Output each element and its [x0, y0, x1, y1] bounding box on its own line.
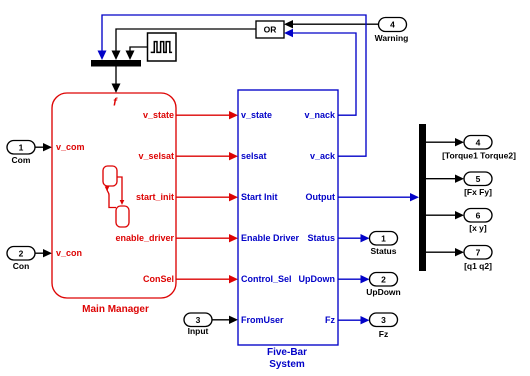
- svg-text:[q1 q2]: [q1 q2]: [464, 261, 492, 271]
- svg-text:enable_driver: enable_driver: [115, 233, 174, 243]
- svg-text:Control_Sel: Control_Sel: [241, 274, 292, 284]
- wire Con to Main Manager: [35, 249, 52, 257]
- svg-text:Status: Status: [307, 233, 335, 243]
- blue wire Fz: [338, 316, 370, 324]
- svg-text:OR: OR: [264, 25, 277, 35]
- svg-text:UpDown: UpDown: [299, 274, 336, 284]
- red wire ConSel: [176, 275, 238, 283]
- svg-text:[Fx Fy]: [Fx Fy]: [464, 187, 492, 197]
- svg-text:6: 6: [476, 211, 481, 221]
- outport 2 UpDown: [366, 273, 400, 298]
- svg-text:5: 5: [476, 174, 481, 184]
- svg-text:Input: Input: [188, 326, 209, 336]
- svg-text:Status: Status: [371, 246, 397, 256]
- outport 5 FxFy: [464, 172, 492, 197]
- inport 4 Warning: [375, 18, 409, 44]
- wire Input to FromUser: [212, 316, 238, 324]
- outport 7 q1q2: [464, 246, 492, 272]
- svg-text:f: f: [113, 97, 118, 109]
- svg-text:v_com: v_com: [56, 142, 85, 152]
- svg-text:v_state: v_state: [241, 110, 272, 120]
- svg-text:3: 3: [196, 315, 201, 325]
- blue wire UpDown: [338, 275, 370, 283]
- svg-text:4: 4: [390, 20, 395, 30]
- wire Warning to OR: [284, 20, 379, 28]
- svg-text:Main Manager: Main Manager: [82, 304, 149, 315]
- svg-text:Warning: Warning: [375, 33, 409, 43]
- red wire selsat: [176, 152, 238, 160]
- outport 1 Status: [370, 232, 398, 257]
- wire OR to mux: [112, 29, 257, 60]
- svg-text:3: 3: [381, 315, 386, 325]
- svg-text:2: 2: [19, 249, 24, 259]
- svg-text:Enable Driver: Enable Driver: [241, 233, 300, 243]
- svg-text:v_state: v_state: [143, 110, 174, 120]
- svg-text:[Torque1 Torque2]: [Torque1 Torque2]: [442, 151, 516, 161]
- red wire enable_driver: [176, 234, 238, 242]
- Main Manager port labels: [56, 110, 174, 284]
- wire demux to outport 7: [426, 248, 464, 256]
- red wire start_init: [176, 193, 238, 201]
- inport 2 Con: [7, 247, 35, 272]
- inport 1 Com: [7, 141, 35, 166]
- pulse generator: [148, 33, 177, 61]
- svg-text:Fz: Fz: [379, 329, 388, 339]
- svg-text:v_con: v_con: [56, 248, 82, 258]
- Five-Bar port labels: [241, 110, 336, 325]
- blue wire v_ack to mux: [98, 15, 367, 156]
- outport 3 Fz: [370, 313, 398, 339]
- red wire v_state: [176, 111, 238, 119]
- wire pulse generator to mux: [126, 47, 148, 60]
- svg-text:[x y]: [x y]: [469, 223, 487, 233]
- svg-text:v_nack: v_nack: [304, 110, 336, 120]
- outport 4 Torque: [442, 136, 516, 161]
- svg-text:selsat: selsat: [241, 151, 267, 161]
- OR block: [256, 21, 284, 38]
- svg-text:Fz: Fz: [325, 315, 335, 325]
- blue wire Output to demux: [338, 193, 419, 201]
- block Five-Bar System: [238, 90, 338, 370]
- mux bar: [91, 60, 141, 67]
- svg-text:7: 7: [476, 248, 481, 258]
- svg-text:Com: Com: [12, 155, 31, 165]
- svg-text:4: 4: [476, 138, 481, 148]
- wire demux to outport 5: [426, 175, 464, 183]
- svg-text:1: 1: [19, 143, 24, 153]
- svg-text:v_ack: v_ack: [310, 151, 336, 161]
- svg-text:2: 2: [381, 275, 386, 285]
- svg-text:Output: Output: [306, 192, 336, 202]
- wire Com to Main Manager: [35, 143, 52, 151]
- svg-text:Five-Bar: Five-Bar: [267, 347, 307, 358]
- svg-text:Con: Con: [13, 261, 30, 271]
- svg-text:v_selsat: v_selsat: [138, 151, 174, 161]
- svg-text:System: System: [269, 359, 305, 370]
- svg-text:UpDown: UpDown: [366, 287, 400, 297]
- demux bar: [419, 124, 426, 271]
- svg-text:ConSel: ConSel: [143, 274, 174, 284]
- svg-text:1: 1: [381, 234, 386, 244]
- blue wire Status: [338, 234, 370, 242]
- outport 6 xy: [464, 209, 492, 234]
- Main Manager chart icon: [103, 166, 129, 227]
- svg-text:Start Init: Start Init: [241, 192, 278, 202]
- inport 3 Input: [184, 313, 212, 336]
- svg-text:start_init: start_init: [136, 192, 174, 202]
- blue wire v_nack to OR: [284, 29, 356, 115]
- wire demux to outport 4: [426, 138, 464, 146]
- wire mux to Main Manager: [112, 67, 121, 94]
- wire demux to outport 6: [426, 211, 464, 219]
- block Main Manager: [52, 93, 176, 315]
- svg-text:FromUser: FromUser: [241, 315, 284, 325]
